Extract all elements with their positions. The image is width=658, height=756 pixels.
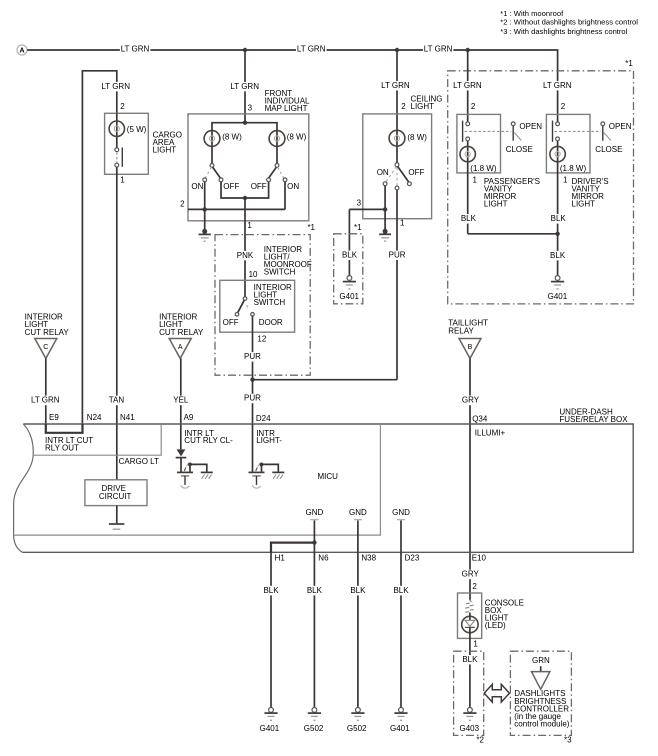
svg-text:C: C	[43, 344, 48, 351]
wire label BLK vanity ground	[548, 251, 567, 261]
taillight relay B label	[448, 319, 488, 336]
svg-text:*2 : Without dashlights bright: *2 : Without dashlights brightness contr…	[500, 18, 638, 27]
label INTR LT CUT RLY OUT	[45, 436, 93, 453]
junction PUR with ceiling light return	[250, 378, 254, 382]
svg-text:BLK: BLK	[462, 655, 478, 664]
wire driver vanity switch to bulb to ground	[557, 141, 559, 276]
node A	[17, 45, 27, 55]
wire GND to D23	[397, 520, 405, 553]
wire label BLK console	[460, 655, 479, 665]
svg-text:OFF: OFF	[251, 182, 267, 191]
wire label BLK N6	[305, 586, 324, 596]
wire label LT GRN ceiling	[379, 81, 412, 91]
svg-text:PUR: PUR	[244, 394, 261, 403]
dashlights brightness controller dash-dot box *3	[510, 651, 571, 735]
label DASHLIGHTS BRIGHTNESS CONTROLLER	[514, 689, 569, 728]
svg-text:3: 3	[357, 199, 362, 208]
passenger vanity switch contacts and bar	[463, 121, 470, 142]
svg-text:(1.8 W): (1.8 W)	[470, 164, 497, 173]
interior light switch contacts OFF DOOR	[235, 313, 254, 317]
svg-text:OPEN: OPEN	[519, 122, 542, 131]
svg-text:OFF: OFF	[223, 318, 239, 327]
svg-text:LT GRN: LT GRN	[230, 82, 259, 91]
svg-text:LT GRN: LT GRN	[121, 44, 150, 53]
svg-text:H1: H1	[275, 554, 286, 563]
LED console light	[462, 613, 478, 708]
wire YEL relay A to A9	[180, 358, 182, 449]
wire GND to N38	[354, 520, 362, 553]
wire LT GRN bus to ceiling light	[396, 50, 398, 163]
wire label LT GRN driver vanity	[541, 81, 574, 91]
driver vanity mirror light box	[546, 114, 590, 172]
wire LT GRN relay C to E9	[45, 358, 47, 424]
relay A triangle	[169, 339, 191, 359]
svg-text:ILLUMI+: ILLUMI+	[475, 429, 506, 438]
internal link E9 to N24	[46, 424, 83, 433]
junction map light pin3 on rail	[243, 121, 247, 125]
wire BLK N6 to G502	[313, 553, 315, 708]
map light right switch dashed to ON	[278, 167, 284, 178]
label INTERIOR LIGHT/MOONROOF SWITCH	[264, 245, 312, 277]
wire GND to N6	[310, 520, 318, 553]
fuse box torn left edge	[14, 424, 34, 552]
wire label BLK driver	[549, 214, 568, 224]
junction ceiling ground	[383, 207, 387, 211]
svg-text:CLOSE: CLOSE	[506, 145, 533, 154]
svg-text:N24: N24	[87, 413, 102, 422]
wire GRY relay B through box to console light	[469, 358, 471, 600]
svg-text:BLK: BLK	[307, 586, 323, 595]
svg-text:BLK: BLK	[263, 586, 279, 595]
ground map light case	[199, 229, 211, 241]
svg-text:MAP LIGHT: MAP LIGHT	[265, 104, 308, 113]
svg-text:OFF: OFF	[223, 182, 239, 191]
labels ON OFF ceiling	[377, 168, 425, 177]
svg-text:G401: G401	[548, 292, 568, 301]
svg-text:LT GRN: LT GRN	[453, 81, 482, 90]
svg-text:ON: ON	[191, 182, 203, 191]
wire cargo area light feed hook to N24	[82, 71, 116, 424]
svg-text:A: A	[19, 48, 24, 55]
ceiling switch blade to OFF	[398, 167, 409, 183]
MICU box	[14, 424, 381, 535]
label INTR LT CUT RLY CL-	[184, 429, 233, 445]
wire PUR door contact down to D24	[252, 316, 254, 424]
labels OPEN CLOSE passenger	[506, 122, 543, 154]
wire label LT GRN bus 1	[120, 44, 150, 55]
interior light/moonroof switch dash-dot box *1	[215, 235, 310, 376]
wire label PUR upper	[243, 352, 262, 362]
svg-text:LIGHT: LIGHT	[484, 200, 508, 209]
svg-text:PUR: PUR	[244, 352, 261, 361]
junction on bus at passenger vanity	[466, 48, 470, 52]
label DRIVE CIRCUIT	[99, 484, 132, 501]
ceiling switch dashed to middle	[396, 168, 398, 187]
svg-text:OPEN: OPEN	[609, 122, 632, 131]
svg-text:G401: G401	[260, 724, 280, 733]
svg-text:*3 : With dashlights brightnes: *3 : With dashlights brightness control	[500, 27, 627, 36]
svg-text:*1: *1	[354, 223, 362, 232]
label INTR LIGHT-	[256, 429, 282, 445]
svg-text:LT GRN: LT GRN	[424, 44, 453, 53]
wire label LT GRN relay C	[29, 396, 62, 406]
svg-text:OFF: OFF	[408, 168, 424, 177]
svg-text:LT GRN: LT GRN	[31, 396, 60, 405]
svg-text:G502: G502	[304, 724, 324, 733]
svg-text:LIGHT: LIGHT	[153, 145, 177, 154]
resistor console light	[465, 600, 473, 613]
double arrow between console ground and controller	[484, 684, 509, 702]
wire PNK map light pin1 to interior light switch	[244, 198, 246, 297]
map light right switch common	[275, 164, 279, 168]
wire label LT GRN passenger vanity	[451, 81, 484, 91]
svg-text:Q34: Q34	[472, 414, 488, 423]
svg-text:BLK: BLK	[551, 214, 567, 223]
svg-text:LT GRN: LT GRN	[543, 81, 572, 90]
interior light switch box	[220, 280, 295, 332]
svg-text:RLY OUT: RLY OUT	[45, 444, 79, 453]
wire ceiling to case ground	[384, 209, 386, 229]
svg-text:E9: E9	[49, 413, 59, 422]
wire label PNK	[235, 251, 255, 261]
svg-text:GRY: GRY	[462, 396, 480, 405]
svg-text:(1.8 W): (1.8 W)	[560, 164, 587, 173]
interior light switch common	[243, 297, 247, 301]
svg-text:(8 W): (8 W)	[407, 133, 427, 142]
svg-text:3: 3	[248, 103, 253, 112]
wire LT GRN bus from node A to driver vanity drop	[27, 50, 557, 122]
wire label BLK N38	[348, 586, 367, 596]
junction on bus at ceiling light	[395, 48, 399, 52]
svg-text:GRN: GRN	[532, 656, 550, 665]
svg-text:DOOR: DOOR	[259, 318, 283, 327]
wire label PUR ceiling	[388, 251, 407, 261]
wire label LT GRN cargo feed	[100, 82, 133, 92]
svg-text:CARGO LT: CARGO LT	[119, 457, 159, 466]
wire label PUR lower	[243, 394, 262, 403]
svg-text:GND: GND	[392, 508, 410, 517]
junction H1 N6	[312, 540, 316, 544]
svg-text:2: 2	[471, 102, 476, 111]
driver mirror lid switch OPEN/CLOSE	[601, 122, 611, 141]
ground G502 N6	[308, 708, 321, 721]
svg-text:YEL: YEL	[173, 396, 189, 405]
svg-text:BLK: BLK	[350, 586, 366, 595]
svg-text:TAN: TAN	[109, 396, 125, 405]
wire label LT GRN bus 2	[296, 44, 327, 55]
console ground dash-dot box *2	[454, 651, 484, 735]
junction on bus at map light	[243, 48, 247, 52]
svg-text:CUT RELAY: CUT RELAY	[25, 328, 70, 337]
svg-text:E10: E10	[472, 554, 487, 563]
svg-text:LT GRN: LT GRN	[297, 44, 326, 53]
ground G401 vanity	[551, 276, 564, 289]
interior light switch blade to OFF	[238, 300, 245, 312]
bulb map light right (8 W)	[269, 131, 285, 147]
svg-text:1: 1	[473, 640, 478, 649]
wire map light to case ground	[204, 209, 206, 229]
svg-text:CUT RLY CL-: CUT RLY CL-	[184, 436, 233, 445]
svg-text:D23: D23	[405, 554, 420, 563]
svg-text:2: 2	[120, 102, 125, 111]
ceiling light box	[363, 114, 432, 219]
svg-text:*1: *1	[307, 223, 315, 232]
svg-text:G401: G401	[339, 292, 359, 301]
wire BLK ceiling pin3 to G401	[348, 209, 350, 275]
bulb map light left (8 W)	[204, 131, 220, 147]
bulb driver vanity (1.8 W)	[550, 146, 565, 161]
svg-text:(8 W): (8 W)	[222, 133, 242, 142]
passenger vanity switch linkage dashed	[465, 130, 512, 132]
svg-text:LT GRN: LT GRN	[101, 82, 130, 91]
ceiling switch contacts ON middle OFF	[383, 182, 411, 190]
svg-text:N41: N41	[120, 413, 135, 422]
ceiling switch dashed to ON	[386, 167, 397, 183]
svg-text:PNK: PNK	[237, 251, 254, 260]
wire PUR ceiling pin1 down	[396, 190, 398, 380]
ground G401 ceiling	[343, 276, 356, 289]
svg-text:LT GRN: LT GRN	[381, 81, 410, 90]
svg-text:SWITCH: SWITCH	[254, 298, 286, 307]
svg-text:1: 1	[563, 176, 568, 185]
ground drive circuit	[109, 524, 125, 529]
wire TAN cargo pin1 to N41 and drive circuit	[116, 167, 118, 480]
svg-text:A: A	[178, 344, 183, 351]
svg-text:G502: G502	[347, 724, 367, 733]
wire label GRY console	[460, 570, 480, 580]
svg-text:MICU: MICU	[318, 472, 339, 481]
passenger vanity mirror light box	[457, 114, 501, 172]
ground G401 H1	[264, 708, 277, 721]
wire BLK N38 to G502	[357, 553, 359, 708]
labels ON OFF OFF ON	[191, 182, 299, 191]
label DRIVER'S VANITY MIRROR LIGHT	[572, 177, 609, 209]
wire label LT GRN map light	[229, 82, 262, 92]
svg-text:RELAY: RELAY	[448, 327, 474, 336]
wire label TAN	[107, 396, 127, 406]
label PASSENGER'S VANITY MIRROR LIGHT	[484, 177, 540, 209]
driver vanity switch linkage dashed	[555, 130, 601, 132]
transistor D24 driver	[249, 424, 285, 488]
svg-text:LIGHT-: LIGHT-	[256, 436, 282, 445]
bulb passenger vanity (1.8 W)	[460, 146, 475, 161]
svg-text:CLOSE: CLOSE	[595, 145, 622, 154]
cargo light door switch contacts	[115, 148, 122, 168]
svg-text:N6: N6	[318, 554, 329, 563]
labels OPEN CLOSE driver	[595, 122, 631, 154]
vanity mirror lights dash-dot box *1	[448, 71, 634, 304]
wire label BLK D23	[392, 586, 411, 596]
svg-text:BLK: BLK	[393, 586, 409, 595]
relay C triangle	[35, 339, 57, 359]
svg-text:BLK: BLK	[461, 214, 477, 223]
svg-text:2: 2	[180, 200, 185, 209]
wire cargo light pin2 to switch	[116, 113, 118, 147]
passenger mirror lid switch OPEN/CLOSE	[511, 122, 521, 141]
junction vanity grounds	[555, 232, 559, 236]
svg-text:BLK: BLK	[550, 251, 566, 260]
wire drive circuit to ground	[116, 506, 118, 524]
svg-text:12: 12	[257, 334, 266, 343]
wire BLK D23 to G401	[400, 553, 402, 708]
svg-text:2: 2	[401, 102, 406, 111]
wire ceiling ON contact to pin3 rail	[349, 186, 385, 210]
front individual map light box	[188, 114, 309, 221]
bulb ceiling light (8 W)	[389, 130, 405, 146]
drive circuit box	[85, 480, 147, 506]
label CEILING LIGHT	[411, 94, 443, 111]
svg-text:LIGHT: LIGHT	[411, 102, 435, 111]
junction map light pin1	[243, 196, 247, 200]
wire LT GRN bus to map light	[244, 50, 246, 123]
svg-text:1: 1	[473, 176, 478, 185]
transistor A9 driver	[177, 458, 213, 488]
svg-text:D24: D24	[256, 414, 271, 423]
svg-text:A9: A9	[184, 413, 194, 422]
ground G401 D23	[394, 708, 407, 721]
wire label LT GRN bus 3	[423, 44, 454, 55]
interior light cut relay A label	[159, 312, 204, 337]
svg-text:(5 W): (5 W)	[127, 125, 147, 134]
label CARGO AREA LIGHT	[153, 131, 182, 155]
svg-text:(8 W): (8 W)	[287, 133, 307, 142]
wire passenger vanity switch to bulb to pin1	[467, 141, 469, 234]
svg-text:GND: GND	[306, 508, 324, 517]
map light left switch blade to OFF	[213, 167, 221, 178]
map light right contacts OFF ON	[267, 178, 287, 182]
svg-text:G401: G401	[390, 724, 410, 733]
svg-text:GRY: GRY	[462, 570, 480, 579]
svg-text:control module): control module)	[514, 720, 569, 729]
svg-text:N38: N38	[361, 554, 376, 563]
interior light switch tick to DOOR	[247, 305, 249, 309]
bulb cargo area light (5 W)	[109, 121, 124, 136]
svg-text:PUR: PUR	[389, 251, 406, 260]
wire LT GRN to passenger vanity	[467, 50, 469, 122]
svg-text:1: 1	[400, 219, 405, 228]
label UNDER-DASH FUSE/RELAY BOX	[559, 407, 628, 424]
svg-text:CUT RELAY: CUT RELAY	[159, 328, 204, 337]
map light left switch common	[210, 164, 214, 168]
labels OFF DOOR	[223, 318, 283, 327]
svg-text:2: 2	[472, 582, 477, 591]
diode A9	[176, 449, 187, 457]
wire BLK H1 to G401	[270, 553, 272, 708]
label FRONT INDIVIDUAL MAP LIGHT	[265, 89, 310, 113]
svg-text:G403: G403	[460, 724, 480, 733]
wire label BLK H1	[262, 586, 281, 596]
label INTERIOR LIGHT SWITCH	[254, 283, 292, 307]
ground ceiling light case	[379, 229, 391, 241]
svg-text:ON: ON	[377, 168, 389, 177]
wire map light internal top rail	[212, 123, 277, 164]
label CONSOLE BOX LIGHT (LED)	[485, 598, 524, 630]
svg-text:10: 10	[249, 270, 258, 279]
ceiling ground dash-dot box *1	[334, 234, 363, 304]
svg-text:(LED): (LED)	[485, 621, 506, 630]
svg-text:1: 1	[247, 221, 252, 230]
map light left switch dashed to ON	[205, 167, 211, 178]
driver vanity switch contacts and bar	[553, 121, 560, 142]
console box light box	[458, 593, 482, 638]
svg-text:*1: *1	[625, 59, 633, 68]
interior light cut relay C label	[25, 312, 70, 337]
svg-text:LIGHT: LIGHT	[572, 200, 596, 209]
controller triangle	[532, 672, 550, 690]
wire label BLK passenger	[459, 214, 478, 224]
wire label GRY	[461, 396, 481, 406]
svg-text:ON: ON	[287, 182, 299, 191]
cargo area light box	[105, 113, 149, 174]
svg-text:B: B	[468, 344, 473, 351]
wire label BLK ceiling	[340, 251, 359, 261]
under-dash fuse/relay box outline	[22, 424, 633, 552]
svg-text:2: 2	[561, 102, 566, 111]
svg-text:*2: *2	[476, 736, 484, 745]
ceiling switch common	[395, 163, 399, 167]
wire map light OFF contacts join	[221, 182, 269, 198]
relay B triangle	[459, 339, 481, 359]
svg-text:BLK: BLK	[342, 251, 358, 260]
ground G403	[463, 708, 476, 721]
svg-text:CIRCUIT: CIRCUIT	[99, 492, 132, 501]
wire label YEL	[171, 396, 190, 406]
svg-text:SWITCH: SWITCH	[264, 268, 296, 277]
wire GRN stub	[540, 666, 542, 671]
svg-text:FUSE/RELAY BOX: FUSE/RELAY BOX	[559, 415, 628, 424]
svg-text:GND: GND	[349, 508, 367, 517]
svg-text:1: 1	[120, 176, 125, 185]
ground G502 N38	[351, 708, 364, 721]
junction map light ground	[203, 207, 207, 211]
wire map light ON rail pin2	[188, 182, 285, 210]
map light left contacts ON OFF	[203, 178, 223, 182]
wire ceiling return joining PUR	[253, 379, 398, 381]
wire vanity grounds join	[468, 233, 558, 235]
map light right switch blade to OFF	[269, 167, 277, 178]
fuse box inner step	[33, 424, 161, 455]
wire H1 branch	[271, 543, 314, 553]
svg-text:*3: *3	[564, 736, 572, 745]
